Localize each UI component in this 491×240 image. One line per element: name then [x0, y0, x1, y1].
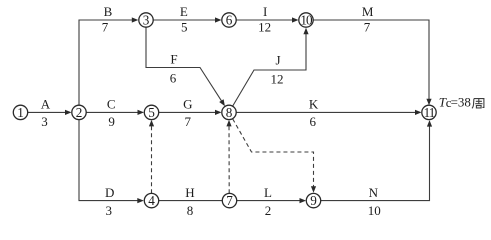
svg-text:12: 12: [258, 19, 271, 34]
svg-text:E: E: [180, 4, 188, 19]
svg-text:=38: =38: [451, 95, 471, 110]
svg-text:9: 9: [108, 114, 115, 129]
node 6: [222, 12, 236, 27]
node 8: [222, 105, 236, 120]
svg-text:L: L: [264, 185, 272, 200]
node 3: [139, 12, 153, 27]
svg-text:6: 6: [170, 70, 177, 85]
svg-text:7: 7: [226, 193, 233, 208]
label N value 10: [368, 185, 381, 218]
svg-text:7: 7: [102, 19, 109, 34]
svg-text:M: M: [362, 4, 374, 19]
node 7: [222, 193, 236, 208]
svg-text:3: 3: [105, 203, 112, 218]
svg-text:D: D: [105, 185, 114, 200]
svg-text:3: 3: [41, 114, 48, 129]
wire activity G arrow 5-8: [159, 110, 222, 115]
svg-text:J: J: [275, 52, 280, 67]
label M value 7: [362, 4, 374, 34]
label J value 12: [271, 52, 284, 86]
svg-text:9: 9: [310, 193, 317, 208]
svg-text:B: B: [104, 4, 113, 19]
svg-text:5: 5: [148, 105, 155, 120]
label F value 6: [170, 51, 178, 85]
glyph zhou (week) drawn: [472, 99, 484, 109]
wire activity I arrow 6-10: [236, 17, 298, 22]
node 10: [299, 12, 313, 27]
svg-text:8: 8: [226, 105, 233, 120]
label A value 3: [41, 97, 51, 129]
svg-text:6: 6: [226, 12, 233, 27]
svg-text:4: 4: [148, 193, 155, 208]
svg-text:H: H: [185, 185, 194, 200]
wire dummy dashed arrow 8-9: [233, 119, 316, 193]
svg-text:5: 5: [181, 19, 188, 34]
node 1: [13, 105, 27, 120]
svg-text:3: 3: [143, 12, 150, 27]
svg-text:N: N: [369, 185, 379, 200]
label K value 6: [309, 97, 319, 129]
wire activity J arrow 8-10: [233, 28, 309, 106]
label D value 3: [105, 185, 114, 218]
svg-text:K: K: [309, 97, 319, 112]
wire activity M arrow 10-11: [313, 20, 431, 105]
node 5: [144, 105, 158, 120]
svg-text:8: 8: [187, 203, 194, 218]
label E value 5: [180, 4, 188, 34]
label H value 8: [185, 185, 194, 218]
wire activity A arrow 1-2: [28, 110, 72, 115]
label L value 2: [264, 185, 272, 218]
node 11: [422, 105, 436, 120]
wire activity L arrow 7-9: [237, 198, 306, 203]
svg-text:G: G: [183, 97, 192, 112]
wire activity C arrow 2-5: [86, 110, 144, 115]
svg-text:7: 7: [364, 19, 371, 34]
label G value 7: [183, 97, 192, 129]
wire activity F arrow 3-8: [146, 28, 225, 107]
svg-text:F: F: [170, 51, 177, 66]
label B value 7: [102, 4, 113, 34]
svg-text:A: A: [41, 97, 51, 112]
label Tc = 38 weeks: [439, 95, 484, 110]
wire activity D arrow 2-4: [79, 120, 144, 204]
wire activity H line 4-7: [159, 200, 222, 202]
svg-text:6: 6: [310, 114, 317, 129]
wire activity B arrow 2-3: [79, 17, 138, 105]
node 2: [72, 105, 86, 120]
wire dummy dashed arrow 4-5: [149, 120, 154, 193]
svg-text:7: 7: [185, 114, 192, 129]
svg-text:10: 10: [368, 203, 381, 218]
wire activity K arrow 8-11: [236, 110, 421, 115]
svg-text:2: 2: [76, 105, 83, 120]
svg-text:12: 12: [271, 71, 284, 86]
svg-text:11: 11: [424, 105, 435, 120]
node 9: [306, 193, 320, 208]
wire dummy dashed arrow 7-8: [226, 120, 231, 193]
label C value 9: [107, 97, 116, 129]
wire activity E arrow 3-6: [154, 17, 222, 22]
svg-text:10: 10: [300, 12, 313, 27]
wire activity N arrow 9-11: [321, 120, 432, 201]
svg-text:1: 1: [17, 105, 24, 120]
svg-text:C: C: [107, 97, 116, 112]
svg-text:2: 2: [265, 203, 272, 218]
svg-text:I: I: [263, 4, 267, 19]
label I value 12: [258, 4, 271, 34]
node 4: [144, 193, 158, 208]
